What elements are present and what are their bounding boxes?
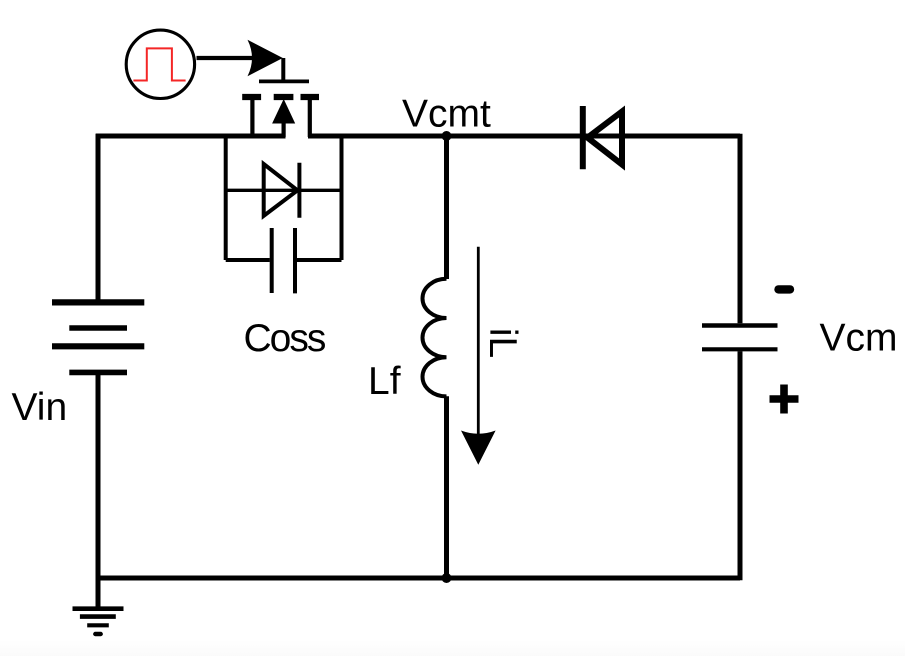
battery Vin plate 1 (long +) (52, 299, 144, 305)
svg-text:Coss: Coss (244, 317, 326, 360)
wire: snubber box left vertical (224, 134, 228, 260)
wire: inductor branch upper (Vcmt node down to Lf) (444, 134, 449, 279)
svg-text:Vin: Vin (12, 386, 68, 429)
transistor Q1 body lead (282, 121, 286, 137)
svg-text:Vcm: Vcm (820, 317, 898, 360)
pulse source V1 (circle) (126, 30, 194, 98)
transistor Q1 body arrow (points up to channel) (272, 99, 295, 124)
ground symbol bar 3 (87, 623, 109, 627)
wire: gate drive line (pulse source to arrowhead) (197, 56, 253, 60)
wire: top rail right segment (MOSFET drain to Vcmt node and diode, to right corner) (308, 134, 740, 139)
diode D2 triangle (588, 112, 623, 165)
wire: left rail upper (top rail down to battery + plate) (96, 134, 101, 303)
transistor Q1 body contact bar (middle) (274, 94, 294, 100)
transistor Q1 drain contact bar (right) (301, 94, 320, 100)
node bottom junction dot (442, 573, 452, 583)
transistor Q1 gate bar (259, 80, 309, 84)
battery Vin plate 4 (short -) (69, 370, 127, 376)
pulse source V1 waveform (red square pulse) (133, 48, 185, 80)
wire: top rail left segment (Vin+ node to MOSFET source/body leads) (96, 134, 286, 139)
wire: Coss row left segment (226, 258, 270, 262)
capacitor Coss left plate (270, 228, 274, 293)
gate drive arrowhead (solid dart pointing right at gate) (248, 40, 283, 77)
Vcm minus sign (779, 285, 791, 293)
battery Vin plate 3 (long +) (52, 343, 144, 349)
capacitor Vcm bottom plate (702, 347, 778, 351)
battery Vin plate 2 (short -) (69, 325, 127, 331)
wire: left rail lower (battery - plate down to bottom rail) (96, 372, 101, 578)
transistor Q1 source lead (250, 100, 254, 137)
current arrow iL shaft (477, 247, 480, 434)
wire: inductor branch lower (Lf down to bottom rail) (444, 396, 449, 580)
diode D1 cathode bar (297, 163, 301, 218)
ground symbol bar 2 (80, 614, 116, 619)
wire: Coss row right segment (297, 258, 342, 262)
inductor Lf (three arcs bulging left) (423, 279, 447, 397)
wire: snubber box right vertical (340, 134, 344, 260)
ground symbol dot (95, 632, 100, 636)
transistor Q1 drain lead (308, 100, 312, 137)
wire: ground stub (bottom rail junction down to ground symbol) (96, 578, 101, 607)
wire: right rail lower (Vcm + plate down to bottom rail) (738, 351, 743, 580)
ground symbol bar 1 (73, 606, 124, 611)
capacitor Vcm top plate (702, 323, 778, 328)
transistor Q1 gate lead (vertical from arrow tip to gate bar) (281, 58, 285, 80)
capacitor Coss right plate (293, 228, 297, 293)
svg-text:iL: iL (481, 328, 524, 358)
node Vcmt junction dot (442, 131, 452, 141)
Vcm plus sign (770, 385, 799, 414)
svg-text:Vcmt: Vcmt (402, 93, 491, 136)
diode D2 cathode bar (top right, pointing left) (580, 106, 586, 169)
svg-text:Lf: Lf (368, 360, 401, 403)
wire: bottom rail (ground node to right corner) (96, 576, 740, 581)
current arrow iL head (solid, pointing down) (461, 431, 496, 465)
transistor Q1 source contact bar (left) (242, 94, 261, 100)
wire: right rail upper (top corner down to Vcm - plate) (738, 134, 743, 324)
wire: body diode row horizontal (226, 189, 342, 192)
diode D1 body diode triangle (264, 164, 298, 216)
